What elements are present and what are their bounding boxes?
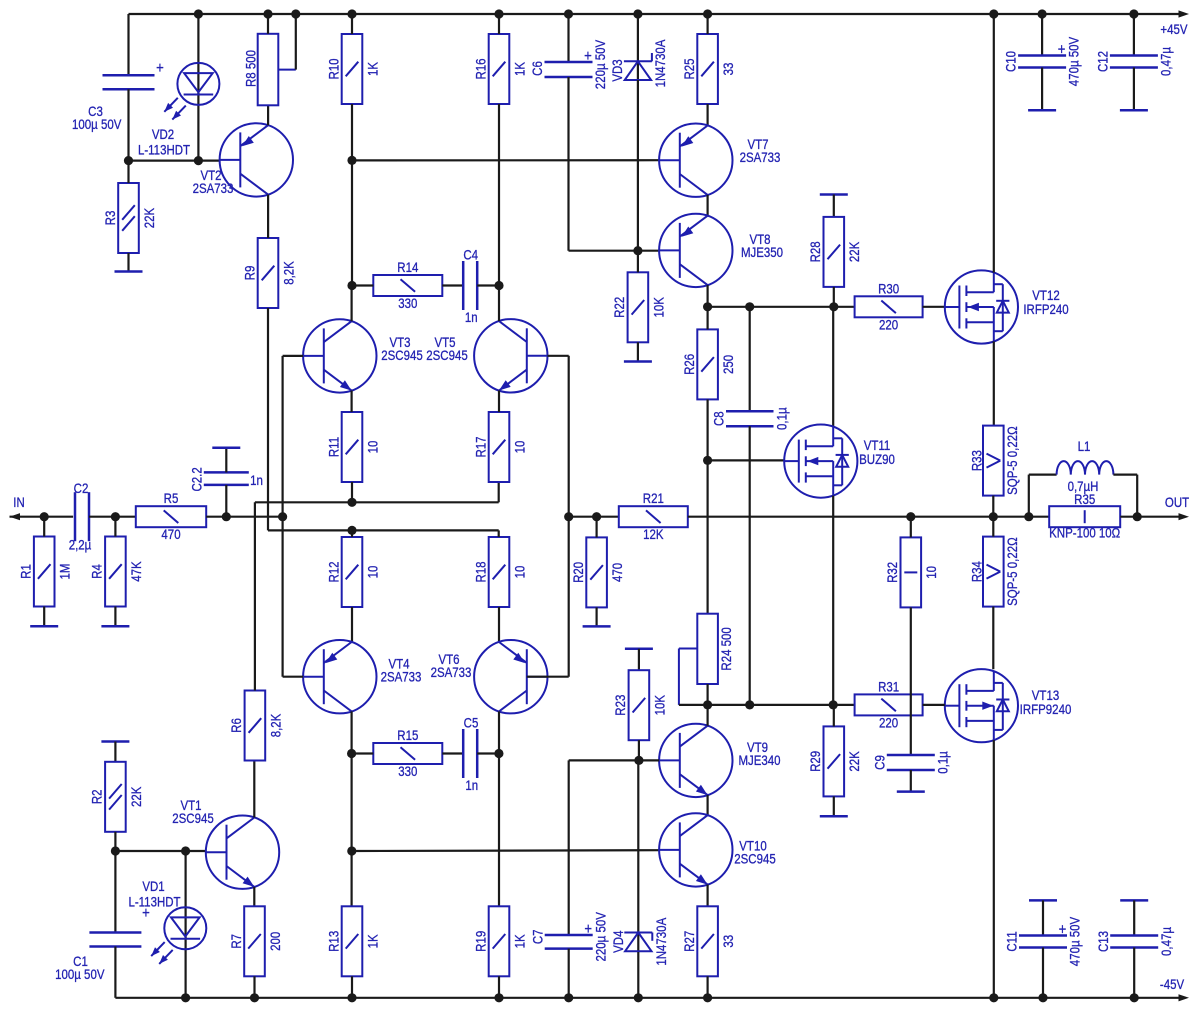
wire VD1 branch [185,851,187,998]
svg-text:BUZ90: BUZ90 [859,451,895,467]
wire R1 bottom [43,607,45,627]
svg-text:R17: R17 [472,436,488,457]
ground (R1) [30,625,58,628]
wire R9 to lower tail [268,529,499,531]
resistor R32 [884,537,940,607]
svg-text:22K: 22K [846,751,862,772]
svg-text:2SA733: 2SA733 [431,664,472,680]
transistor VT9 [659,724,780,797]
wire R22 top [637,251,639,273]
svg-text:L-113HDT: L-113HDT [128,893,180,909]
label L1 value [1068,478,1099,494]
wire R15-C5 [442,752,463,754]
wire VT4 collector [351,711,353,753]
capacitor C11 [1003,916,1082,966]
transistor VT7 [659,124,780,197]
svg-text:10: 10 [364,441,380,454]
zener diode VD4 [610,917,669,965]
wire VT10 base line [352,849,659,852]
ground (R4) [101,625,129,628]
svg-text:VD2: VD2 [152,126,174,142]
svg-text:+45V: +45V [1160,21,1188,37]
wire R16 top [498,14,500,34]
svg-text:2SA733: 2SA733 [740,149,781,165]
svg-text:IRFP240: IRFP240 [1023,301,1068,317]
resistor R3 [102,183,158,253]
wire VT9 collector [706,705,708,726]
wire VT6.C to R19 [498,754,500,907]
label C2 value [69,536,92,552]
label C5n [464,714,479,730]
wire C1 top [114,851,116,933]
resistor R35 [1049,491,1120,541]
node R10/VT7 base line [347,156,356,165]
svg-text:R22: R22 [611,297,627,318]
svg-text:22K: 22K [128,786,144,807]
svg-text:0,1µ: 0,1µ [934,751,950,774]
svg-text:C8: C8 [710,411,726,426]
svg-text:R32: R32 [884,562,900,583]
wire R8 top [267,14,269,34]
label C3 plus [156,60,164,77]
wire VT2 collector [267,195,269,238]
wire R21 right [688,516,1049,518]
resistor R20 [570,537,626,607]
capacitor C13 [1095,926,1174,956]
ground (R23) [625,647,653,650]
resistor R4 [89,537,145,607]
svg-text:10: 10 [923,566,939,579]
svg-text:0,47µ: 0,47µ [1157,46,1173,76]
svg-text:L-113HDT: L-113HDT [138,141,190,157]
svg-text:2SC945: 2SC945 [381,347,422,363]
node rail/C7 [564,993,573,1002]
resistor R9 [241,238,297,308]
wire R35 right [1120,516,1137,518]
svg-text:R3: R3 [102,211,118,226]
svg-text:200: 200 [267,932,283,951]
resistor R29 [807,726,863,796]
svg-text:R18: R18 [472,561,488,582]
svg-text:22K: 22K [846,241,862,262]
svg-text:470: 470 [609,563,625,582]
wire R14 left [352,284,373,286]
wire VT7-VT8 [706,195,708,216]
label IN [13,494,24,510]
svg-text:220: 220 [879,316,898,332]
transistor VT13 [945,669,1072,742]
node VAS upper [703,302,712,311]
svg-text:R15: R15 [397,727,418,743]
node input/R1 [40,512,49,521]
svg-text:+: + [156,60,164,77]
wire R24 bottom [706,684,708,705]
wire VT3 base [283,355,304,357]
resistor R30 [855,280,923,332]
svg-text:R20: R20 [570,562,586,583]
wire C7 elbow [568,760,570,935]
wire VD4 bottom [637,952,639,998]
ground (R3) [115,270,143,273]
node rail/VD3 [633,9,642,18]
node rail/R25 [703,9,712,18]
svg-text:C7: C7 [529,929,545,944]
svg-text:C2.2: C2.2 [188,467,204,491]
resistor R7 [228,906,284,976]
transistor VT4 [303,640,421,713]
wire L1 right [1113,475,1137,517]
LED VD1 [128,878,206,964]
svg-text:0,47µ: 0,47µ [1158,926,1174,956]
wire R14-C4 [442,284,463,286]
label C1 [73,953,88,969]
svg-text:L1: L1 [1078,438,1091,454]
IN terminal arrow [10,513,21,520]
transistor VT10 [659,813,776,886]
resistor R27 [681,906,737,976]
node rail/C13 [1130,993,1139,1002]
node C5/VT6 collector [494,749,503,758]
wire R26 bottom [706,399,708,460]
wire VT9-VT10 [706,795,708,815]
svg-text:-45V: -45V [1160,976,1185,992]
svg-text:470µ 50V: 470µ 50V [1066,916,1082,966]
svg-text:8,2K: 8,2K [267,713,283,737]
wire VT1 emitter [253,887,255,906]
wire R13 bottom [351,976,353,998]
resistor R6 [228,691,284,761]
svg-text:+: + [584,48,592,65]
node rail/C11 [1038,993,1047,1002]
svg-text:1N4730A: 1N4730A [652,39,668,87]
wire C8 top [749,307,751,412]
resistor R26 [681,329,737,399]
wire C13 bottom [1133,948,1135,998]
wire R28 top [833,195,835,217]
node bias/VT11 source [829,700,838,709]
svg-text:C13: C13 [1095,931,1111,952]
svg-text:10K: 10K [651,695,667,716]
wire C3 top [127,14,129,75]
svg-text:220µ 50V: 220µ 50V [592,912,608,962]
wire C2.2 bottom [225,485,227,517]
svg-text:R6: R6 [228,718,244,733]
wire C1 bottom [114,947,116,998]
wire C3 bottom [127,89,129,160]
svg-text:R23: R23 [612,695,628,716]
node VD2/VT2 base [194,156,203,165]
svg-text:C12: C12 [1094,51,1110,72]
svg-text:1n: 1n [250,472,263,488]
wire R23 top [638,649,640,671]
svg-text:R16: R16 [472,58,488,79]
node VD1/VT1 base [181,846,190,855]
ground (C11) [1029,899,1057,902]
node bias lower [703,700,712,709]
wire VD3 top [637,14,639,80]
wire VT11 source [832,496,834,705]
svg-text:2SA733: 2SA733 [381,668,422,684]
transistor VT1 [172,797,279,889]
svg-text:IRFP9240: IRFP9240 [1020,701,1072,717]
svg-text:IN: IN [13,494,24,510]
LED VD2 [138,63,219,158]
node output/R32 [906,512,915,521]
svg-text:R34: R34 [968,561,984,582]
wire R29 bottom [833,796,835,816]
label R8 [242,50,258,87]
wire L1 left [1029,475,1057,517]
node C4/R16 [494,281,503,290]
svg-text:330: 330 [398,763,417,779]
wire VT2 base [129,160,220,162]
wire R4 bottom [114,607,116,627]
svg-text:R13: R13 [325,931,341,952]
svg-text:R24 500: R24 500 [718,627,734,670]
svg-text:2,2µ: 2,2µ [69,536,92,552]
wire R8 wiper tap [278,14,296,70]
capacitor C3 [103,75,155,89]
capacitor C2 [75,492,89,541]
wire C2.2-feedback node [226,516,282,518]
svg-text:VD1: VD1 [142,878,164,894]
wire VT5 emitter [498,391,500,413]
svg-text:+: + [1059,921,1067,938]
wire VD2 branch [197,14,199,161]
wire C6 top [567,14,569,62]
wire R18 top elbow [498,530,500,537]
transistor VT2 [193,123,293,196]
resistor R12 [325,537,381,607]
wire R7 bottom [253,976,255,998]
ground (R20) [583,625,611,628]
ground (R29) [820,815,848,818]
label C2 [74,480,89,496]
wire R30-VT12 gate [923,306,946,308]
wire R33 bottom [992,496,994,517]
node rail/VD2 [194,9,203,18]
svg-text:OUT: OUT [1165,494,1189,510]
label +45V [1160,21,1188,37]
svg-text:C5: C5 [464,714,479,730]
node C3/R3 [124,156,133,165]
node R13/VT10 base [347,846,356,855]
svg-text:0,1µ: 0,1µ [773,407,789,430]
wire VT2 emitter [267,105,269,125]
svg-text:SQP-5 0,22Ω: SQP-5 0,22Ω [1004,426,1020,495]
wire VT9 base [638,759,659,761]
svg-text:+: + [584,921,592,938]
capacitor C10 [1003,36,1082,86]
resistor R16 [472,34,528,104]
svg-text:C4: C4 [463,246,478,262]
label C2.2 value [250,472,263,488]
svg-text:1K: 1K [364,62,380,76]
transistor VT11 [784,425,895,498]
ground (R2) [101,740,129,743]
wire R16 bottom [498,104,500,286]
svg-text:R4: R4 [89,564,105,579]
label OUT [1165,494,1189,510]
wire C7 bottom [568,949,570,998]
node VT11 gate [703,456,712,465]
resistor R31 [855,678,923,730]
wire VT11 gate [708,459,785,461]
wire R10 top [351,14,353,34]
node R12/lower tail [347,526,356,535]
svg-text:R1: R1 [17,564,33,579]
wire C12 bottom [1133,68,1135,111]
node R23/VT9 base [634,756,643,765]
wire VT3/VT4 base column [282,356,284,677]
resistor R11 [325,412,381,482]
wire VD4 top [637,760,639,952]
resistor R17 [472,412,528,482]
resistor R19 [472,906,528,976]
svg-text:C9: C9 [871,755,887,770]
label C1 value [55,966,105,982]
wire R12 top [351,530,353,537]
label R24 [718,627,734,670]
resistor R14 [373,259,442,311]
svg-text:R2: R2 [89,789,105,804]
resistor R21 [619,490,688,542]
wire R15 left [352,752,374,754]
node R15/C5 left [347,749,356,758]
svg-text:R31: R31 [878,678,899,694]
svg-text:47K: 47K [128,561,144,582]
wire VT11 drain [832,307,834,426]
wire VT8 collector [706,285,708,307]
svg-text:470µ 50V: 470µ 50V [1066,36,1082,86]
node C2/R4 [111,512,120,521]
node rail/C10 [1038,9,1047,18]
node feedback (VT3/VT4 bases) [278,512,287,521]
node VD3/VT8 base [633,246,642,255]
wire VT4.C to R13 [351,754,353,907]
resistor R5 [136,490,206,542]
node rail/R10 [347,9,356,18]
svg-text:+: + [1058,41,1066,58]
transistor VT8 [659,214,783,287]
node rail/R8 tap [291,9,300,18]
wire R5-C2.2 [206,516,226,518]
svg-text:33: 33 [720,935,736,948]
svg-text:100µ 50V: 100µ 50V [72,116,122,132]
node rail/VD1 [181,993,190,1002]
wire C11 top [1042,900,1044,935]
capacitor C9 [871,751,950,774]
resistor R8 [258,34,279,106]
svg-text:R33: R33 [968,450,984,471]
svg-text:C6: C6 [529,61,545,76]
svg-text:1n: 1n [465,309,478,325]
label C3 value [72,116,122,132]
ground (R28) [820,193,848,196]
svg-text:1M: 1M [56,564,72,580]
wire OUT [1137,516,1183,518]
label C2.2 [188,467,204,491]
node VAS/VT11 drain [829,302,838,311]
wire VAS line [708,306,855,308]
R24 wiper tap [679,649,697,705]
node VT5/VT6 bases / R21 [564,512,573,521]
wire R28 bottom [833,287,835,307]
node R2/VT1 base [111,846,120,855]
ground (R22) [624,360,652,363]
svg-text:10: 10 [511,566,527,579]
ground (C13) [1120,899,1148,902]
resistor R23 [612,670,668,740]
wire C13 top [1133,900,1135,935]
svg-text:SQP-5 0,22Ω: SQP-5 0,22Ω [1004,537,1020,606]
svg-text:10K: 10K [650,297,666,318]
node rail/R7 [250,993,259,1002]
svg-text:1K: 1K [511,62,527,76]
wire R3 top [127,161,129,183]
wire R4 top [114,517,116,537]
label C4 value [465,309,478,325]
capacitor C6 [529,39,608,89]
svg-text:R30: R30 [878,280,899,296]
svg-text:R8 500: R8 500 [242,50,258,87]
resistor R34 [968,537,1020,607]
transistor VT12 [945,270,1069,343]
svg-text:8,2K: 8,2K [280,261,296,285]
wire R26-R24 [706,460,708,613]
wire C2.2 top [225,448,227,473]
capacitor C4 [463,261,477,310]
svg-text:KNP-100 10Ω: KNP-100 10Ω [1049,525,1120,541]
node rail/R8 [263,9,272,18]
svg-text:R26: R26 [681,354,697,375]
wire VT12 drain [993,14,995,273]
node rail/R27 [703,993,712,1002]
svg-text:MJE340: MJE340 [738,752,780,768]
wire C10 bottom [1041,68,1043,111]
svg-text:22K: 22K [141,207,157,228]
node rail/VD4 [634,993,643,1002]
transistor VT3 [303,319,423,392]
node R11/tail [347,498,356,507]
svg-text:C10: C10 [1003,51,1019,72]
svg-text:+: + [142,905,150,922]
wire C8 bottom [749,426,751,705]
wire C11 bottom [1042,948,1044,998]
wire R3 bottom [127,253,129,272]
capacitor C8 [710,407,789,430]
wire R22 bottom [637,342,639,361]
svg-text:1n: 1n [465,777,478,793]
capacitor C5 [463,729,477,778]
label C4n [463,246,478,262]
wire VT6 base [527,676,569,678]
wire VT9 base line [569,759,639,761]
resistor R1 [17,537,73,607]
svg-text:10: 10 [511,441,527,454]
svg-text:2SC945: 2SC945 [734,850,775,866]
wire C12 top [1133,14,1135,56]
wire VT5/VT6 base column [568,356,570,677]
node R14/C4 left [347,281,356,290]
resistor R28 [807,217,863,287]
label L1 [1078,438,1091,454]
wire R25 top [706,14,708,34]
inductor L1 [1057,461,1114,475]
wire R26 top [706,307,708,330]
capacitor C1 [89,933,141,947]
svg-text:R27: R27 [681,931,697,952]
